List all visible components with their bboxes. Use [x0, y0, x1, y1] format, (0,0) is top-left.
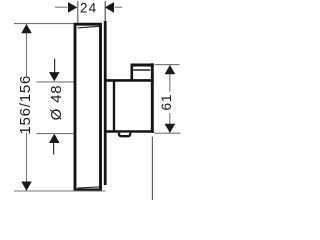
svg-text:61: 61	[158, 94, 174, 111]
handle bottom	[104, 130, 154, 133]
sleeve divider	[113, 81, 115, 132]
dim Ø48: top arrow	[49, 72, 60, 81]
dim Ø48: bottom leader	[53, 143, 55, 155]
escutcheon plate (side view)	[75, 24, 101, 190]
plate bottom bevel line	[78, 187, 100, 188]
svg-text:24: 24	[80, 1, 98, 16]
dim 156/156: top arrow	[21, 24, 32, 33]
dim 61: dimension line	[169, 65, 171, 133]
dim 61: top arrow	[165, 65, 176, 74]
dim Ø48: top leader	[54, 59, 56, 73]
safety stop bump	[119, 133, 130, 136]
dim 156/156: bottom arrow	[21, 182, 32, 191]
button block top	[131, 64, 154, 67]
lower reference line	[151, 137, 153, 200]
wall line	[104, 1, 106, 21]
svg-text:Ø 48: Ø 48	[48, 85, 65, 121]
handle end face edge	[151, 63, 154, 133]
dim 61: extension lines	[155, 64, 180, 66]
dim 24: right tail	[115, 6, 122, 8]
dim 24: left arrow	[68, 2, 77, 13]
dim 156/156: label	[18, 76, 35, 133]
button block left edge	[131, 65, 134, 80]
dim 156/156: extension lines	[14, 23, 74, 25]
button block inner line	[133, 69, 150, 71]
svg-text:156/156: 156/156	[17, 75, 34, 135]
dim 61: bottom arrow	[165, 124, 176, 133]
dim 24: right arrow	[105, 2, 114, 13]
handle grip top surface	[104, 79, 154, 82]
dim Ø48: extension lines	[37, 81, 74, 83]
dim 156/156: dimension line	[26, 24, 28, 191]
plate top bevel line	[78, 26, 100, 28]
dim 24: left tail	[55, 6, 67, 8]
dim 24: extension lines	[77, 1, 79, 23]
dim 61: label	[166, 92, 175, 114]
dim Ø48: bottom arrow	[49, 134, 60, 143]
